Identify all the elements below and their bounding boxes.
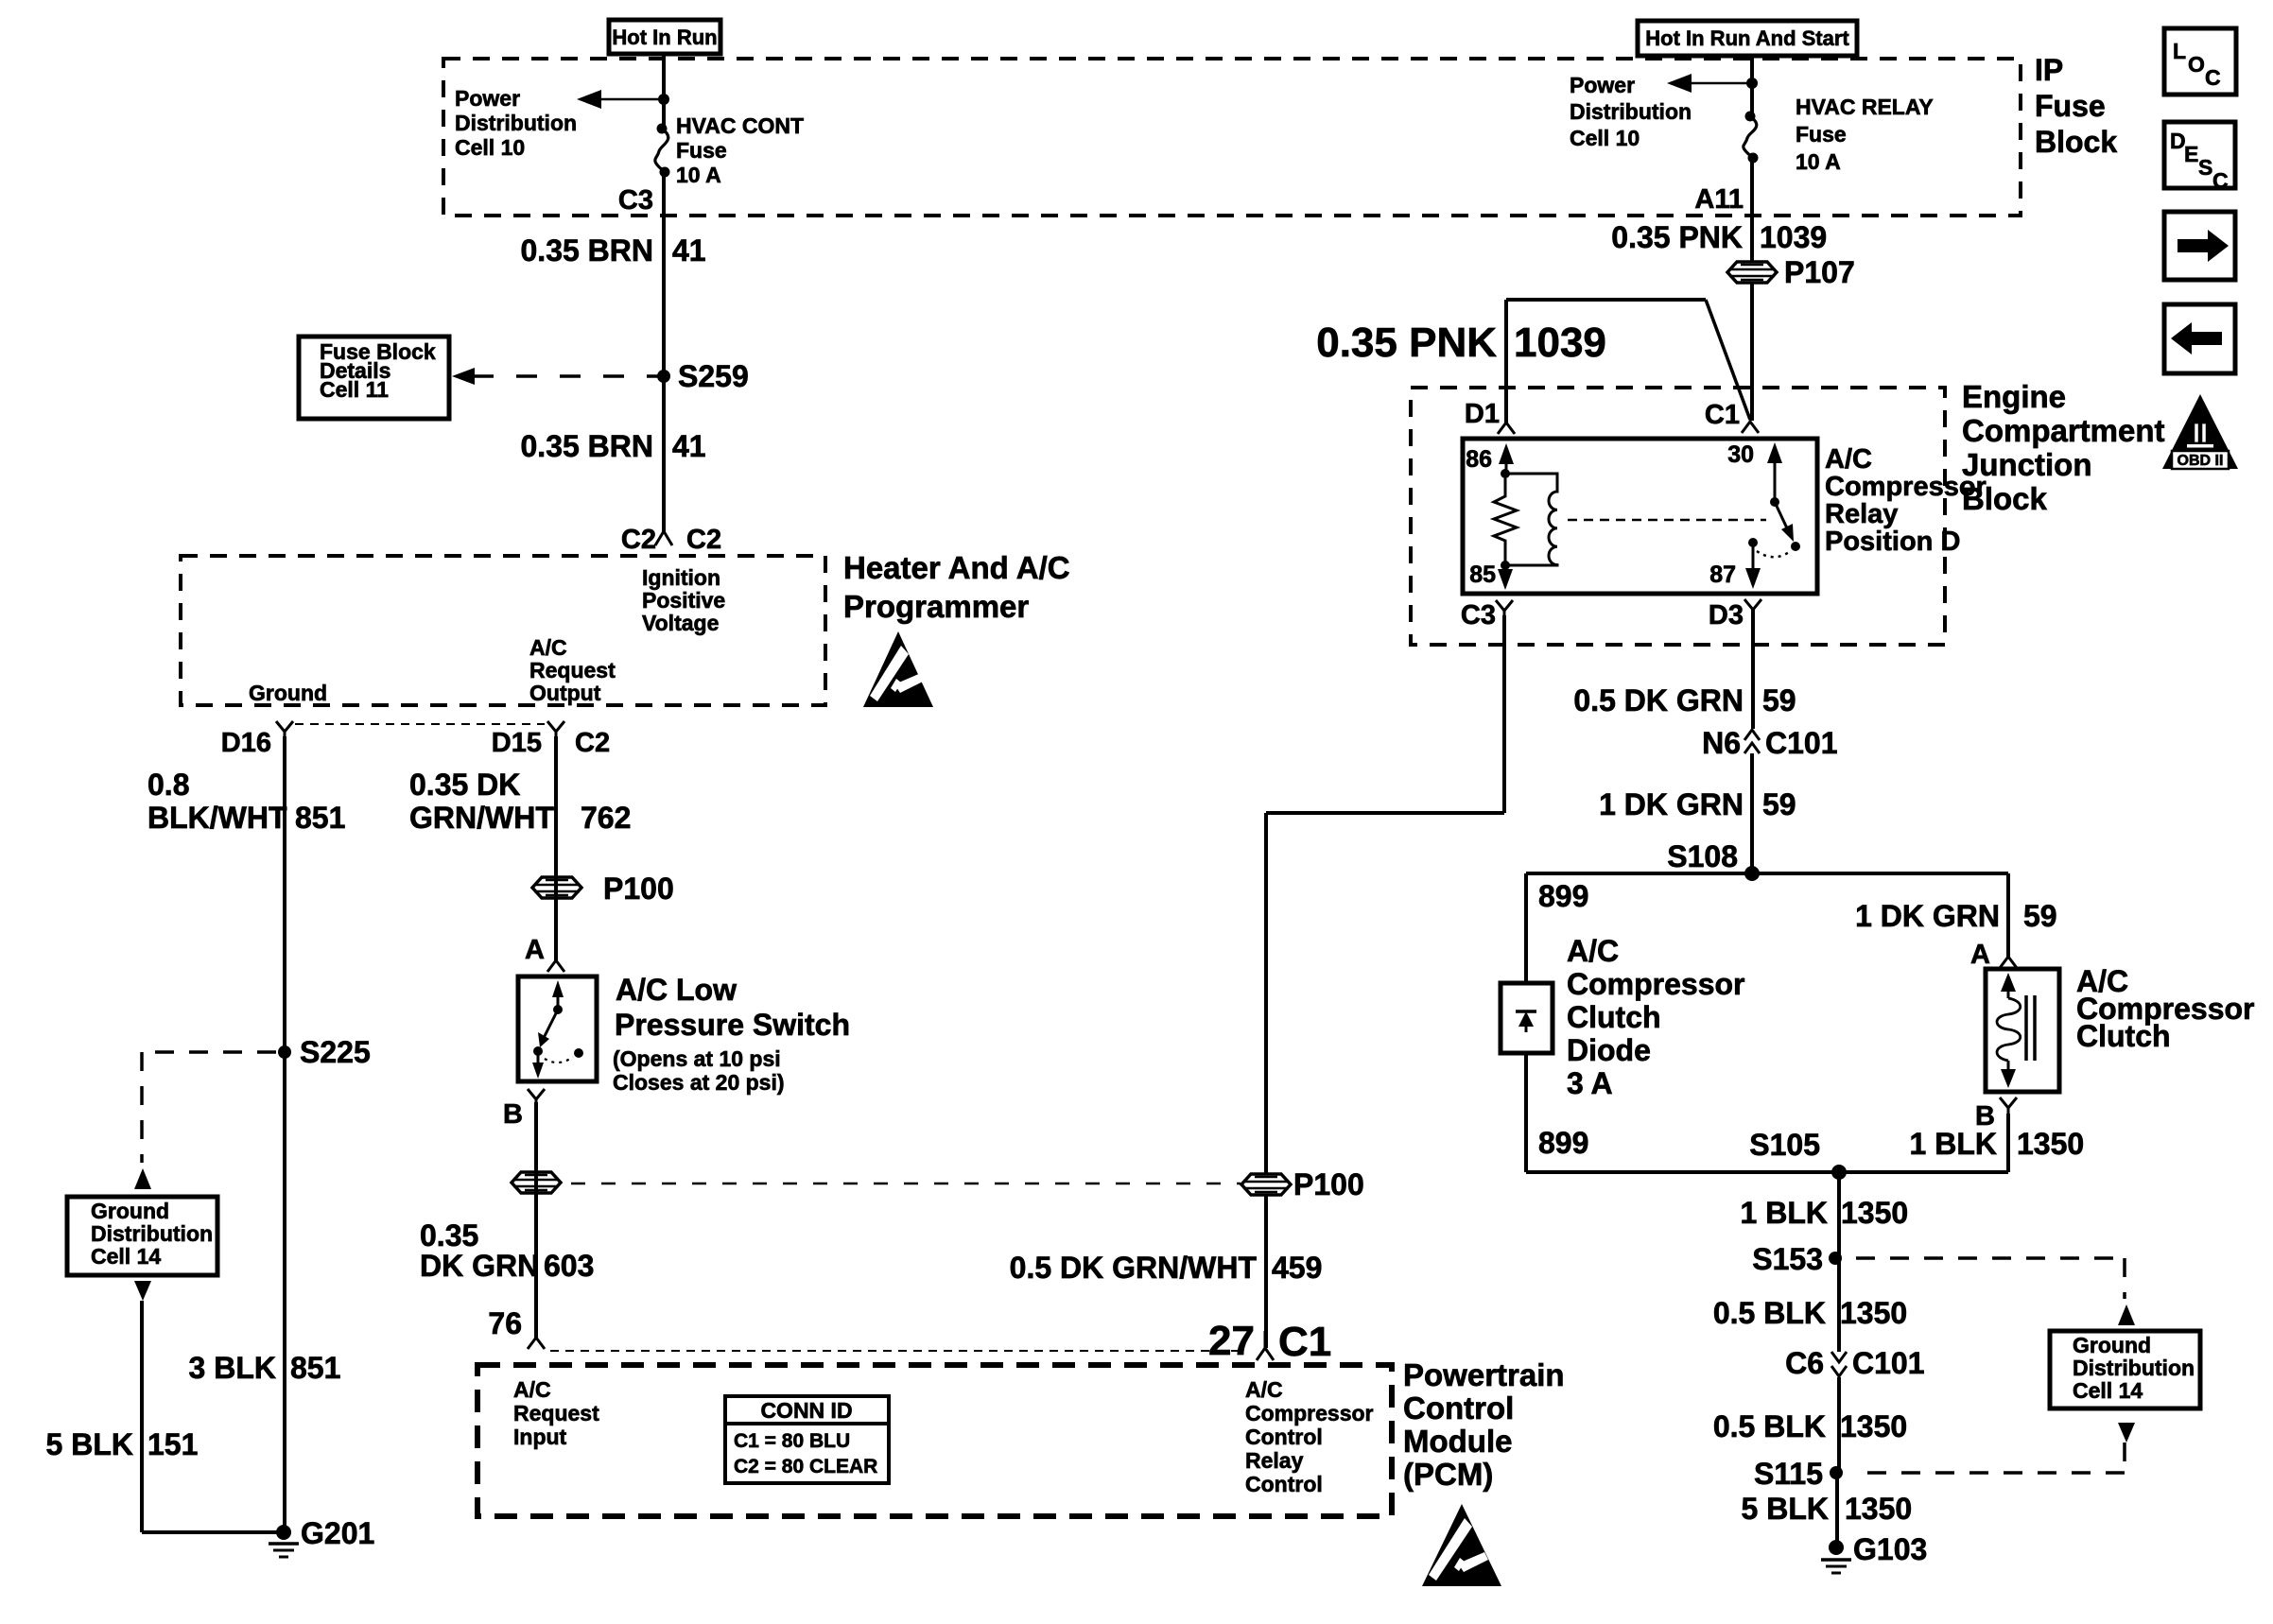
svg-text:0.5 DK GRN: 0.5 DK GRN <box>1573 683 1744 717</box>
wire 0.8 BLK/WHT 851 - ground leg <box>283 736 286 1532</box>
svg-text:Positive: Positive <box>642 588 725 613</box>
svg-text:C6: C6 <box>1785 1346 1824 1380</box>
wire down to diode (899) <box>1524 873 1528 983</box>
connector P100 lens (pcm side left) <box>512 1172 561 1193</box>
svg-text:Fuse: Fuse <box>2035 89 2106 123</box>
svg-text:A: A <box>525 935 545 965</box>
svg-text:899: 899 <box>1538 879 1588 913</box>
svg-text:Cell 14: Cell 14 <box>2073 1378 2143 1403</box>
wire P100 to PCM pin 27 <box>1264 1195 1268 1348</box>
svg-text:C2 = 80 CLEAR: C2 = 80 CLEAR <box>734 1456 877 1477</box>
svg-text:P100: P100 <box>603 872 674 906</box>
svg-text:Relay: Relay <box>1245 1448 1304 1473</box>
svg-text:Distribution: Distribution <box>2073 1356 2195 1380</box>
svg-text:0.35 PNK: 0.35 PNK <box>1316 320 1497 366</box>
icon arrow right <box>2164 212 2235 280</box>
svg-text:Distribution: Distribution <box>91 1221 213 1246</box>
relay switch pivot dot <box>1770 497 1779 507</box>
splice S259 <box>657 370 670 383</box>
svg-text:Clutch: Clutch <box>2076 1019 2171 1053</box>
svg-text:151: 151 <box>147 1427 198 1461</box>
dashed connector link D16-D15 <box>295 723 545 725</box>
svg-text:Programmer: Programmer <box>843 589 1029 624</box>
connector P107 <box>1727 262 1777 283</box>
svg-text:Control: Control <box>1245 1425 1323 1449</box>
svg-text:0.5 BLK: 0.5 BLK <box>1713 1409 1826 1443</box>
svg-text:Cell 10: Cell 10 <box>1570 126 1640 150</box>
svg-text:41: 41 <box>672 429 706 463</box>
svg-text:Cell 11: Cell 11 <box>320 377 389 402</box>
arrow down from ground distribution callout <box>134 1281 151 1301</box>
svg-text:Engine: Engine <box>1962 379 2066 414</box>
svg-text:A/C Low: A/C Low <box>616 973 737 1007</box>
svg-text:0.35 BRN: 0.35 BRN <box>521 429 654 463</box>
svg-text:5 BLK: 5 BLK <box>46 1427 133 1461</box>
svg-text:Clutch: Clutch <box>1567 1000 1661 1034</box>
svg-text:(PCM): (PCM) <box>1403 1457 1493 1492</box>
svg-text:59: 59 <box>1762 787 1796 821</box>
svg-text:0.35: 0.35 <box>420 1218 478 1253</box>
svg-text:1350: 1350 <box>1840 1409 1907 1443</box>
svg-text:Compartment: Compartment <box>1962 413 2165 448</box>
pressure switch contacts <box>552 980 564 997</box>
svg-text:0.35 PNK: 0.35 PNK <box>1611 220 1743 254</box>
relay pin 87 arrow <box>1752 543 1755 578</box>
connector C101 pin C6 (double chevron) <box>1831 1352 1847 1376</box>
svg-text:DK GRN: DK GRN <box>420 1249 539 1283</box>
svg-text:S108: S108 <box>1667 839 1738 873</box>
power label box 'Hot In Run And Start' <box>1638 21 1857 56</box>
wire C3 to PCM relay control <box>1502 615 1506 813</box>
IP Fuse Block dashed outline <box>443 59 2021 216</box>
svg-text:Module: Module <box>1403 1424 1512 1459</box>
splice S225 <box>278 1045 291 1059</box>
svg-text:1 DK GRN: 1 DK GRN <box>1599 787 1744 821</box>
svg-text:899: 899 <box>1538 1126 1588 1160</box>
relay U1 - A/C Compressor Relay box <box>1463 439 1817 594</box>
svg-text:P107: P107 <box>1784 255 1855 289</box>
svg-text:1350: 1350 <box>2017 1127 2084 1161</box>
svg-text:C2: C2 <box>575 728 610 758</box>
dashed connector link 76-27 <box>550 1350 1246 1352</box>
svg-text:C3: C3 <box>618 185 653 216</box>
svg-text:Compressor: Compressor <box>1825 472 1987 502</box>
svg-text:1350: 1350 <box>1841 1196 1908 1230</box>
dashed reference S153 to Ground Distribution (right) <box>1856 1256 2125 1260</box>
relay coil <box>1505 474 1557 565</box>
svg-text:Position D: Position D <box>1825 527 1960 557</box>
connector C3 chevron <box>1496 600 1513 618</box>
svg-text:C2: C2 <box>686 525 721 555</box>
arrow to Power Distribution Cell 10 (right) <box>1692 82 1750 85</box>
connector D3 chevron <box>1744 599 1761 617</box>
svg-text:Heater And A/C: Heater And A/C <box>843 550 1070 585</box>
wire clutch B to S105 - 1 BLK 1350 <box>2006 1114 2010 1172</box>
A/C Low Pressure Switch box <box>518 976 597 1081</box>
branch wire 0.35 PNK 1039 to D1 <box>1506 298 1706 302</box>
svg-text:Distribution: Distribution <box>1570 99 1692 124</box>
svg-text:C1: C1 <box>1705 400 1740 430</box>
svg-text:Relay: Relay <box>1825 499 1898 529</box>
wire 5 BLK 151 <box>140 1301 144 1532</box>
relay coil feed dot (86) <box>1501 469 1510 478</box>
relay pin 30 arrow <box>1767 442 1782 463</box>
svg-text:S259: S259 <box>678 359 749 393</box>
svg-text:HVAC CONT: HVAC CONT <box>676 113 804 138</box>
callout box Fuse Block Details Cell 11 <box>299 337 449 419</box>
svg-text:Hot In Run And Start: Hot In Run And Start <box>1645 26 1849 50</box>
dashed reference line to Fuse Block Details <box>473 374 658 378</box>
svg-text:Block: Block <box>2035 125 2117 159</box>
svg-text:Fuse: Fuse <box>676 138 727 163</box>
ground G201 <box>276 1525 291 1540</box>
svg-text:A/C: A/C <box>1825 444 1872 475</box>
fuse HVAC RELAY 10A symbol <box>1745 112 1756 122</box>
svg-text:Voltage: Voltage <box>642 611 719 635</box>
wire P107 to junction block C1 <box>1750 283 1754 421</box>
svg-text:76: 76 <box>488 1306 522 1340</box>
svg-text:Request: Request <box>513 1401 599 1425</box>
arrow to Power Distribution Cell 10 (left) <box>601 98 662 101</box>
fuse HVAC CONT 10A symbol <box>657 124 668 134</box>
svg-text:S153: S153 <box>1752 1242 1823 1276</box>
svg-text:C1 = 80 BLU: C1 = 80 BLU <box>734 1430 850 1452</box>
svg-text:Fuse: Fuse <box>1796 122 1847 147</box>
wire - Hot In Run And Start to HVAC RELAY fuse <box>1750 56 1754 118</box>
icon LOC <box>2164 28 2236 95</box>
icon arrow left <box>2164 304 2235 373</box>
svg-text:Request: Request <box>529 658 616 682</box>
svg-text:10 A: 10 A <box>1796 149 1841 174</box>
svg-text:87: 87 <box>1709 561 1736 588</box>
svg-text:B: B <box>503 1099 523 1130</box>
svg-text:1350: 1350 <box>1840 1296 1907 1330</box>
svg-text:Control: Control <box>1245 1472 1323 1496</box>
connector C2 at programmer (lambda symbol) <box>655 510 672 545</box>
svg-text:Powertrain: Powertrain <box>1403 1357 1565 1392</box>
svg-text:HVAC RELAY: HVAC RELAY <box>1796 95 1934 119</box>
wire 1 DK GRN 59 to S108 <box>1750 753 1754 873</box>
svg-text:59: 59 <box>2023 899 2057 933</box>
svg-text:D15: D15 <box>492 728 542 758</box>
svg-text:N6: N6 <box>1702 726 1741 760</box>
svg-text:1 BLK: 1 BLK <box>1910 1127 1997 1161</box>
wire S153 to C101 - 0.5 BLK 1350 <box>1837 1258 1841 1352</box>
svg-text:E: E <box>2184 142 2198 166</box>
svg-text:30: 30 <box>1727 441 1754 468</box>
svg-text:BLK/WHT: BLK/WHT <box>147 801 287 835</box>
dashed reference to S115 <box>2123 1443 2126 1473</box>
svg-text:0.8: 0.8 <box>147 768 189 802</box>
clutch coil symbol <box>2001 973 2016 992</box>
svg-text:Diode: Diode <box>1567 1033 1651 1067</box>
svg-text:S: S <box>2198 155 2212 180</box>
pin B chevron at clutch <box>2000 1097 2017 1117</box>
svg-text:P100: P100 <box>1293 1167 1364 1201</box>
svg-text:Ignition: Ignition <box>642 565 720 590</box>
connector P100 (relay control, PCM side) <box>1241 1174 1291 1195</box>
svg-text:1039: 1039 <box>1514 320 1606 366</box>
svg-text:L: L <box>2173 39 2186 63</box>
A/C Compressor Clutch box <box>1986 969 2059 1092</box>
svg-text:41: 41 <box>672 233 706 268</box>
svg-text:0.5 BLK: 0.5 BLK <box>1713 1296 1826 1330</box>
svg-text:Cell 14: Cell 14 <box>91 1244 161 1269</box>
icon DESC <box>2164 122 2235 188</box>
callout box Ground Distribution Cell 14 (left) <box>67 1197 217 1275</box>
wire S105 loop bottom <box>1526 1170 2008 1174</box>
connector D16 chevron <box>276 721 293 747</box>
wire C101 to S115 - 0.5 BLK 1350 <box>1837 1377 1841 1473</box>
svg-text:Ground: Ground <box>91 1199 169 1223</box>
relay switch contact dot (right) <box>1791 542 1800 551</box>
svg-text:3 A: 3 A <box>1567 1066 1613 1100</box>
relay pin 86 arrow <box>1499 443 1514 464</box>
relay pin 85 arrow <box>1504 565 1507 579</box>
Powertrain Control Module dashed outline <box>477 1365 1392 1516</box>
svg-text:Ground: Ground <box>249 681 327 705</box>
svg-text:A/C: A/C <box>1567 934 1619 968</box>
svg-text:G201: G201 <box>301 1516 374 1550</box>
relay linkage dashed <box>1568 519 1766 522</box>
relay switch blade <box>1775 502 1788 530</box>
svg-text:86: 86 <box>1466 446 1492 473</box>
diode CR1 - A/C Compressor Clutch Diode box <box>1501 983 1553 1053</box>
svg-text:851: 851 <box>290 1351 340 1385</box>
svg-text:S115: S115 <box>1754 1457 1823 1491</box>
svg-text:OBD II: OBD II <box>2178 453 2224 469</box>
svg-text:C101: C101 <box>1765 726 1838 760</box>
relay coil return dot (85) <box>1501 561 1510 570</box>
svg-text:A/C: A/C <box>513 1377 551 1402</box>
arrow up into ground distribution callout <box>134 1168 151 1189</box>
svg-text:Power: Power <box>1570 73 1635 97</box>
connector P100 (A/C request wire) <box>532 877 581 898</box>
svg-text:Control: Control <box>1403 1391 1514 1425</box>
ESD sensitive symbol (programmer) <box>863 631 933 707</box>
svg-text:10 A: 10 A <box>676 163 721 187</box>
svg-text:1 DK GRN: 1 DK GRN <box>1855 899 2000 933</box>
svg-text:A/C: A/C <box>1245 1377 1283 1402</box>
svg-text:G103: G103 <box>1853 1532 1927 1566</box>
svg-text:851: 851 <box>295 801 345 835</box>
svg-text:603: 603 <box>544 1249 594 1283</box>
svg-text:59: 59 <box>1762 683 1796 717</box>
svg-text:D3: D3 <box>1709 600 1744 631</box>
svg-text:C101: C101 <box>1852 1346 1925 1380</box>
svg-text:IP: IP <box>2035 53 2063 87</box>
svg-text:Distribution: Distribution <box>455 111 577 135</box>
svg-text:A: A <box>1970 940 1990 970</box>
relay switch dashed throw arc <box>1757 550 1792 557</box>
svg-text:Cell 10: Cell 10 <box>455 135 525 160</box>
svg-text:1039: 1039 <box>1760 220 1827 254</box>
arrow down from ground distribution callout (right) <box>2118 1423 2135 1443</box>
svg-text:Power: Power <box>455 86 520 111</box>
svg-text:A11: A11 <box>1694 184 1744 215</box>
svg-text:Ground: Ground <box>2073 1333 2151 1357</box>
svg-text:Input: Input <box>513 1425 567 1449</box>
svg-text:(Opens at 10 psi: (Opens at 10 psi <box>613 1046 781 1071</box>
svg-text:C1: C1 <box>1278 1319 1331 1365</box>
svg-text:Hot In Run: Hot In Run <box>612 26 717 49</box>
wire 0.35 DK GRN 603 - switch to PCM <box>534 1102 538 1338</box>
svg-text:85: 85 <box>1469 561 1496 588</box>
svg-text:Compressor: Compressor <box>1245 1401 1374 1425</box>
wire 1 DK GRN 59 to clutch A <box>2006 873 2010 957</box>
dashed reference S225 to Ground Distribution <box>142 1050 276 1054</box>
svg-text:0.35 DK: 0.35 DK <box>409 768 520 802</box>
svg-text:5 BLK: 5 BLK <box>1742 1492 1829 1526</box>
diode symbol <box>1516 1010 1536 1013</box>
svg-text:D16: D16 <box>221 728 271 758</box>
svg-text:Compressor: Compressor <box>1567 967 1745 1001</box>
junction dot at fuse feed (right) <box>1746 78 1758 89</box>
svg-text:0.35 BRN: 0.35 BRN <box>521 233 654 268</box>
power label box 'Hot In Run' <box>609 20 720 54</box>
junction dot at fuse feed (left) <box>658 94 669 105</box>
svg-text:S105: S105 <box>1749 1128 1820 1162</box>
svg-text:C3: C3 <box>1461 600 1496 631</box>
svg-text:Pressure Switch: Pressure Switch <box>615 1008 850 1042</box>
svg-text:Closes at 20 psi): Closes at 20 psi) <box>613 1070 785 1095</box>
relay resistor <box>1494 474 1517 565</box>
svg-text:CONN ID: CONN ID <box>760 1398 852 1423</box>
connector C101 pin N6 (double chevron) <box>1744 730 1760 753</box>
svg-text:3 BLK: 3 BLK <box>189 1351 276 1385</box>
wire diode to S105 (899) <box>1524 1053 1528 1172</box>
wire - Hot In Run to HVAC CONT fuse <box>662 54 666 130</box>
svg-text:0.5 DK GRN/WHT: 0.5 DK GRN/WHT <box>1010 1251 1258 1285</box>
svg-text:27: 27 <box>1208 1318 1255 1364</box>
arrow up into ground distribution callout (right) <box>2118 1304 2135 1325</box>
Engine Compartment Junction Block dashed outline <box>1411 388 1945 645</box>
ground G103 <box>1829 1540 1844 1555</box>
wire 0.35 PNK 1039 - fuse to P107 <box>1750 158 1754 262</box>
svg-text:C: C <box>2212 168 2229 193</box>
dashed connector link P100-P100 <box>571 1183 1241 1185</box>
connector D15 chevron / C2 label <box>547 721 564 747</box>
Heater And A/C Programmer dashed outline <box>181 556 825 705</box>
svg-text:C2: C2 <box>621 525 656 555</box>
wire S105 to S153 - 1 BLK 1350 <box>1837 1172 1841 1258</box>
icon OBD II triangle <box>2162 394 2238 469</box>
relay switch contact dot (87) <box>1748 538 1758 547</box>
svg-text:S225: S225 <box>300 1035 371 1069</box>
svg-text:459: 459 <box>1272 1251 1322 1285</box>
svg-text:1 BLK: 1 BLK <box>1741 1196 1828 1230</box>
svg-text:Output: Output <box>529 681 601 705</box>
callout box Ground Distribution Cell 14 (right) <box>2050 1331 2200 1408</box>
CONN ID table <box>725 1396 889 1424</box>
svg-text:O: O <box>2188 52 2205 77</box>
svg-text:D1: D1 <box>1465 399 1500 429</box>
wire S108 loop top (circuit 899 / 59) <box>1526 872 2008 875</box>
svg-text:A/C: A/C <box>529 635 567 660</box>
wire 0.35 DK GRN/WHT 762 <box>554 736 558 960</box>
svg-text:C: C <box>2205 65 2221 90</box>
wire D3 to S108 - 0.5 DK GRN 59 <box>1751 610 1755 729</box>
svg-text:762: 762 <box>581 801 631 835</box>
ESD sensitive symbol (PCM) <box>1422 1504 1501 1586</box>
svg-text:GRN/WHT: GRN/WHT <box>409 801 554 835</box>
wire 0.35 BRN 41 - fuse to S259 to C2 <box>662 172 666 532</box>
pin label B / chevron below switch <box>528 1089 545 1113</box>
svg-text:1350: 1350 <box>1845 1492 1912 1526</box>
wire S115 to G103 - 5 BLK 1350 <box>1835 1473 1839 1547</box>
